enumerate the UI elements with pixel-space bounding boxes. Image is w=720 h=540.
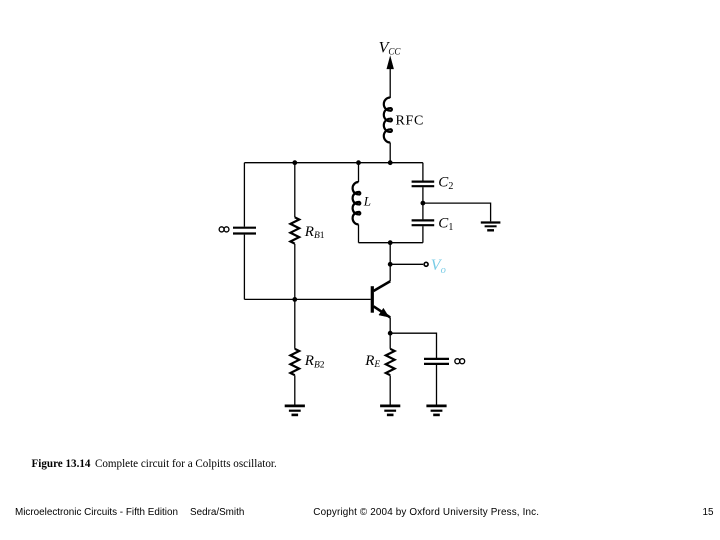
label Vo (431, 257, 446, 276)
ground (RB2) (285, 406, 305, 415)
node: top rail / L branch (356, 160, 361, 165)
node: emitter junction (388, 331, 393, 336)
svg-text:Vo: Vo (431, 257, 446, 276)
Vcc supply arrow (387, 57, 394, 99)
capacitor infinity (emitter bypass) (424, 359, 449, 364)
label RE (364, 353, 380, 370)
wire: Vo tap to terminal (390, 263, 423, 265)
terminal Vo (424, 262, 428, 266)
wire: RE bottom lead (389, 375, 391, 404)
capacitor infinity (left coupling) (233, 228, 256, 234)
label infinity (left) (219, 227, 229, 232)
wire: emitter node to bypass capacitor (390, 333, 436, 358)
label C1 (438, 215, 453, 233)
svg-text:RB2: RB2 (304, 353, 325, 370)
wire: emitter (389, 317, 391, 333)
wire: RE top lead (389, 333, 391, 349)
node: tank bottom / collector (388, 240, 393, 245)
ground (bypass) (426, 406, 446, 415)
label RFC (396, 114, 425, 129)
node: C2/C1 midpoint (421, 201, 426, 206)
svg-text:VCC: VCC (379, 40, 402, 57)
node: Vo tap (388, 262, 393, 267)
wire: base rail (244, 298, 370, 300)
wire: collector (389, 243, 391, 282)
wire: RB2 bottom lead (294, 375, 296, 404)
wire: tank bottom rail (359, 242, 423, 244)
wire: L bottom lead (358, 224, 360, 242)
resistor RB1 (290, 217, 299, 243)
capacitor C1 (412, 220, 435, 225)
svg-text:RE: RE (364, 353, 380, 370)
svg-text:RFC: RFC (396, 114, 425, 129)
resistor RE (386, 349, 395, 375)
label infinity (bypass) (455, 359, 465, 364)
wire: C1 bottom lead (422, 226, 424, 243)
wire: RFC bottom to top rail (389, 143, 391, 163)
transistor Q1 (372, 281, 390, 317)
node: top rail / RB1 column (292, 160, 297, 165)
wire: top rail (244, 162, 423, 164)
node: base rail / bias divider (292, 297, 297, 302)
capacitor C2 (412, 182, 435, 187)
label L (363, 194, 371, 209)
label RB1 (304, 224, 325, 241)
wire: RB1 top lead (294, 163, 296, 218)
wire: left branch upper (243, 163, 245, 227)
svg-text:RB1: RB1 (304, 224, 325, 241)
wire: RB2 top lead (294, 299, 296, 348)
wire: bypass capacitor to ground (436, 365, 438, 405)
wire: RB1 bottom lead (294, 244, 296, 300)
wire: L top lead (358, 163, 360, 182)
label RB2 (304, 353, 325, 370)
svg-text:L: L (363, 194, 371, 209)
node: top rail / RFC (388, 160, 393, 165)
wire: C2 to C1 (422, 187, 424, 219)
wire: midpoint to tank ground (423, 203, 491, 221)
label Vcc (379, 40, 402, 57)
svg-text:C2: C2 (438, 175, 453, 193)
label C2 (438, 175, 453, 193)
ground (tank) (481, 223, 501, 231)
inductor L (353, 182, 361, 224)
wire: C branch top lead (422, 163, 424, 181)
wire: left branch lower (243, 235, 245, 300)
inductor RFC (384, 98, 392, 143)
resistor RB2 (290, 349, 299, 375)
svg-text:C1: C1 (438, 215, 453, 233)
ground (RE) (380, 406, 400, 415)
